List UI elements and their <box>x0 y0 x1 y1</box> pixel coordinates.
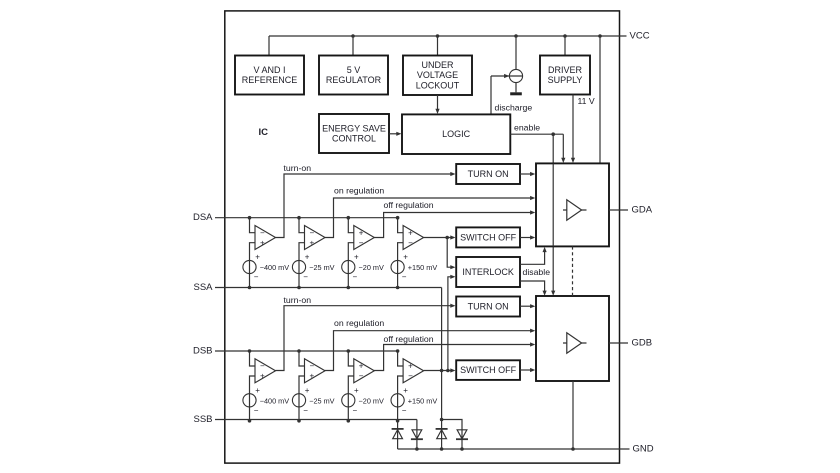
svg-text:turn-on: turn-on <box>284 295 312 305</box>
comparator 2A <box>305 226 326 250</box>
comparator 3B <box>354 359 375 383</box>
junction DA to comparator 3A <box>347 216 351 220</box>
svg-text:VCC: VCC <box>630 31 650 42</box>
svg-text:+: + <box>260 372 265 381</box>
svg-text:5 V: 5 V <box>347 65 361 75</box>
wire switch off A to interlock input 1 <box>447 238 455 270</box>
net on regulation A wire <box>325 196 536 238</box>
svg-text:INTERLOCK: INTERLOCK <box>462 267 514 277</box>
svg-text:discharge: discharge <box>495 102 533 112</box>
svg-text:GND: GND <box>633 443 654 454</box>
wire enable branch to gate driver B <box>551 134 555 296</box>
junction SSA comparator 4A <box>396 286 400 290</box>
svg-text:+: + <box>305 253 310 262</box>
net on regulation B wire <box>325 329 536 371</box>
junction DA to comparator 2A <box>297 216 301 220</box>
net DSB wire <box>215 350 398 352</box>
wire interlock disable to gate driver B <box>520 281 547 296</box>
comparator 3B input wires <box>348 351 354 421</box>
svg-text:+: + <box>305 386 310 395</box>
svg-text:DSB: DSB <box>193 345 213 356</box>
svg-text:+: + <box>255 386 260 395</box>
voltage source -400 mV comparator 1B <box>243 386 260 415</box>
junction diode D3 ground <box>440 447 444 451</box>
wire VCC to driver supply <box>563 34 567 55</box>
svg-text:SUPPLY: SUPPLY <box>548 75 583 85</box>
svg-text:disable: disable <box>523 267 551 277</box>
junction SSA comparator 2A <box>297 286 301 290</box>
svg-text:−: − <box>260 228 265 237</box>
wire switch off B to interlock input 2 <box>448 275 456 371</box>
svg-text:−: − <box>408 372 413 381</box>
svg-text:on regulation: on regulation <box>334 186 384 196</box>
comparator 2A input wires <box>299 218 305 288</box>
svg-text:+: + <box>403 386 408 395</box>
IC boundary box <box>225 11 620 463</box>
junction SSA comparator 3A <box>347 286 351 290</box>
comparator 4A <box>403 226 424 250</box>
comparator 3A <box>354 226 375 250</box>
wire under voltage lockout to logic <box>435 95 439 114</box>
ground symbol below discharge source <box>510 92 522 95</box>
block DRIVER SUPPLY <box>540 56 590 95</box>
voltage source -400 mV comparator 1A <box>243 253 260 282</box>
wire comparator 4B output to SWITCH OFF B <box>424 368 456 372</box>
svg-text:V AND I: V AND I <box>253 65 285 75</box>
voltage source +150 mV comparator 4A <box>391 253 408 282</box>
svg-text:+: + <box>408 362 413 371</box>
wire SWITCH OFF A to gate driver A <box>520 235 535 239</box>
svg-text:−: − <box>310 228 315 237</box>
svg-text:DSA: DSA <box>193 212 213 223</box>
block SWITCH OFF A <box>456 227 520 247</box>
junction diode D4 ground <box>460 447 464 451</box>
gate driver B box <box>536 296 609 381</box>
wire TURN ON B to gate driver B <box>520 304 535 308</box>
wire SSB to diode D1 <box>397 420 399 429</box>
svg-text:−: − <box>303 273 308 282</box>
net SSB wire <box>215 419 417 421</box>
svg-text:GDB: GDB <box>632 337 653 348</box>
svg-text:−: − <box>254 273 259 282</box>
svg-text:+150 mV: +150 mV <box>408 263 438 272</box>
comparator 2B <box>305 359 326 383</box>
svg-text:+: + <box>359 362 364 371</box>
comparator 1B input wires <box>250 351 256 421</box>
svg-text:+: + <box>354 386 359 395</box>
comparator 2B input wires <box>299 351 305 421</box>
svg-text:on regulation: on regulation <box>334 318 384 328</box>
block TURN ON A <box>456 164 520 184</box>
wire interlock disable to gate driver A <box>520 247 547 264</box>
wire VCC to under voltage lockout <box>436 34 440 55</box>
svg-text:−400 mV: −400 mV <box>260 263 290 272</box>
svg-text:off regulation: off regulation <box>384 334 434 344</box>
wire SSA down to clamp diodes <box>441 288 443 429</box>
svg-text:SSB: SSB <box>193 414 212 425</box>
svg-text:enable: enable <box>514 123 540 133</box>
svg-text:SWITCH OFF: SWITCH OFF <box>460 365 516 375</box>
block INTERLOCK <box>456 257 520 287</box>
junction SSB comparator 1B <box>248 419 252 423</box>
junction SSA drop at switch off B line <box>440 369 444 373</box>
svg-text:+: + <box>403 253 408 262</box>
comparator 1B <box>255 359 276 383</box>
voltage source -20 mV comparator 3B <box>342 386 359 415</box>
svg-text:off regulation: off regulation <box>384 200 434 210</box>
svg-text:REFERENCE: REFERENCE <box>242 75 298 85</box>
svg-text:LOGIC: LOGIC <box>442 129 471 139</box>
svg-text:−: − <box>353 273 358 282</box>
svg-text:−: − <box>260 362 265 371</box>
svg-text:TURN ON: TURN ON <box>468 169 509 179</box>
junction enable branch <box>551 132 555 136</box>
block LOGIC <box>402 114 510 154</box>
svg-text:+150 mV: +150 mV <box>408 396 438 405</box>
svg-text:11 V: 11 V <box>578 96 595 106</box>
diode D3 anode-up <box>436 429 448 449</box>
voltage source -25 mV comparator 2A <box>292 253 309 282</box>
junction DA to comparator 1A <box>248 216 252 220</box>
gate driver A box <box>536 163 609 246</box>
svg-text:SSA: SSA <box>193 282 213 293</box>
comparator 3A input wires <box>348 218 354 288</box>
wire VCC to discharge current source <box>514 34 518 69</box>
svg-text:UNDER: UNDER <box>421 60 454 70</box>
diode D4 cathode-down <box>456 430 468 449</box>
block TURN ON B <box>456 297 520 317</box>
wire TURN ON A to gate driver A <box>520 172 535 176</box>
svg-text:−: − <box>408 238 413 247</box>
junction SSB comparator 4B <box>396 419 400 423</box>
comparator 1A <box>255 226 276 250</box>
net enable wire from logic <box>510 134 565 163</box>
wire SSB corner to diode D2 <box>416 420 418 430</box>
net off regulation A wire <box>374 210 535 237</box>
net 11 V wire driver supply to gate driver A <box>571 95 575 164</box>
svg-text:REGULATOR: REGULATOR <box>326 75 382 85</box>
wire branch to diode D4 <box>442 420 462 430</box>
svg-text:−25 mV: −25 mV <box>309 396 334 405</box>
gate driver A amplifier symbol <box>563 200 587 220</box>
net VCC bus wire <box>269 36 627 56</box>
dashed wire gate driver A to gate driver B <box>572 246 574 296</box>
svg-text:+: + <box>310 372 315 381</box>
svg-text:+: + <box>260 238 265 247</box>
junction SSA comparator 1A <box>248 286 252 290</box>
svg-text:GDA: GDA <box>632 204 653 215</box>
comparator 1A input wires <box>250 218 256 288</box>
junction gate driver B ground <box>571 447 575 451</box>
svg-text:turn-on: turn-on <box>284 163 312 173</box>
svg-text:CONTROL: CONTROL <box>332 134 376 144</box>
svg-text:−: − <box>303 406 308 415</box>
block SWITCH OFF B <box>456 360 520 380</box>
wire comparator 4A output to SWITCH OFF A <box>424 235 456 239</box>
junction DB to comparator 2B <box>297 349 301 353</box>
svg-text:+: + <box>255 253 260 262</box>
comparator 4B <box>403 359 424 383</box>
svg-text:−: − <box>310 362 315 371</box>
svg-text:DRIVER: DRIVER <box>548 65 583 75</box>
svg-text:−: − <box>353 406 358 415</box>
svg-text:+: + <box>359 228 364 237</box>
junction DB to comparator 1B <box>248 349 252 353</box>
svg-text:−: − <box>359 372 364 381</box>
wire VCC to gate driver A box <box>598 34 602 163</box>
voltage source +150 mV comparator 4B <box>391 386 408 415</box>
discharge current source symbol <box>491 69 523 92</box>
svg-text:IC: IC <box>259 127 269 138</box>
net SSA wire <box>215 287 442 289</box>
svg-text:−20 mV: −20 mV <box>359 396 384 405</box>
block ENERGY SAVE CONTROL <box>319 114 389 153</box>
wire energy save control to logic <box>389 132 402 136</box>
net DSA wire <box>215 217 398 219</box>
svg-text:TURN ON: TURN ON <box>468 302 509 312</box>
gate driver B amplifier symbol <box>563 333 587 353</box>
pin GDB output wire <box>609 342 628 344</box>
svg-text:ENERGY SAVE: ENERGY SAVE <box>322 123 386 133</box>
junction DB to comparator 3B <box>347 349 351 353</box>
pin GDA output wire <box>609 209 628 211</box>
net ground rail wire <box>398 448 630 450</box>
svg-text:−: − <box>359 238 364 247</box>
block V AND I REFERENCE <box>235 56 304 95</box>
junction SSA drop at diode branch <box>440 418 444 422</box>
voltage source -25 mV comparator 2B <box>292 386 309 415</box>
block 5 V REGULATOR <box>319 56 388 95</box>
junction switch off A to interlock <box>445 236 449 240</box>
svg-text:−400 mV: −400 mV <box>260 396 290 405</box>
wire gate driver B to ground rail <box>572 381 574 449</box>
block UNDER VOLTAGE LOCKOUT <box>403 56 472 96</box>
svg-text:−: − <box>402 406 407 415</box>
net turn-on B wire <box>276 304 456 371</box>
svg-text:+: + <box>310 238 315 247</box>
svg-text:−25 mV: −25 mV <box>309 263 334 272</box>
wire enable through gate driver A <box>552 163 554 246</box>
svg-text:SWITCH OFF: SWITCH OFF <box>460 232 516 242</box>
comparator 4A input wires <box>398 218 404 288</box>
net off regulation B wire <box>374 342 535 370</box>
junction DA to comparator 4A <box>396 216 400 220</box>
wire SWITCH OFF B to gate driver B <box>520 368 535 372</box>
svg-text:LOCKOUT: LOCKOUT <box>416 80 460 90</box>
svg-text:+: + <box>354 253 359 262</box>
diode D1 anode-up <box>392 429 404 449</box>
net turn-on A wire <box>276 172 456 238</box>
wire discharge control from logic <box>490 76 492 114</box>
wire VCC to 5V regulator <box>351 34 355 55</box>
svg-text:−: − <box>402 273 407 282</box>
svg-text:+: + <box>408 228 413 237</box>
junction SSB comparator 3B <box>347 419 351 423</box>
comparator 4B input wires <box>398 351 404 421</box>
junction SSB comparator 2B <box>297 419 301 423</box>
svg-text:VOLTAGE: VOLTAGE <box>417 70 458 80</box>
diode D2 cathode-down <box>411 430 423 449</box>
svg-text:−20 mV: −20 mV <box>359 263 384 272</box>
junction switch off B to interlock <box>446 369 450 373</box>
svg-text:−: − <box>254 406 259 415</box>
junction DB to comparator 4B <box>396 349 400 353</box>
voltage source -20 mV comparator 3A <box>342 253 359 282</box>
junction diode D2 ground <box>415 447 419 451</box>
